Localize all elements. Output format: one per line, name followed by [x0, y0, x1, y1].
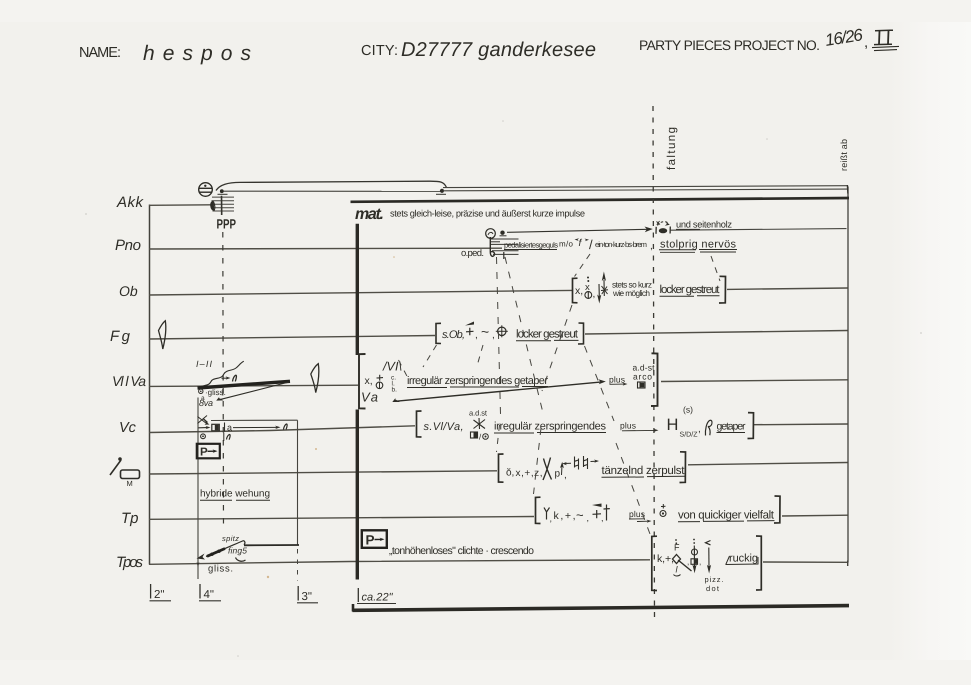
svg-text:M: M: [127, 479, 133, 488]
svg-text:a: a: [201, 395, 205, 402]
Vc bar-note marker: [223, 433, 225, 442]
perc right arrow: [591, 460, 597, 462]
svg-text:a: a: [227, 423, 232, 433]
svg-text:hybride wehung: hybride wehung: [200, 489, 270, 500]
Tp plus with wedge: [592, 504, 602, 508]
svg-text:,: ,: [475, 330, 478, 341]
staff line Vc (right): [754, 423, 848, 426]
central Vc box/circle below: [471, 432, 478, 438]
Fg wedge symbol near label: [159, 321, 166, 349]
Vc left arrow into box: [199, 427, 208, 429]
und seitenholz figure: x mark: [657, 221, 661, 225]
svg-text:ein·ton·kurz·bs·brem: ein·ton·kurz·bs·brem: [595, 240, 647, 249]
und seitenholz figure: left bar: [655, 227, 657, 234]
Vl/Va heavy diagonal stroke: [198, 381, 291, 388]
main thick barline: [356, 224, 359, 355]
Tpos gesture thick segment with dots: [207, 549, 225, 557]
Vl/Va dash after gliss: [222, 389, 224, 396]
Ob stacked circle-plus: [585, 292, 592, 299]
svg-text:x,: x,: [365, 375, 373, 387]
central Vl/Va plus over circle: [377, 375, 384, 381]
Vc note after arrow: [284, 424, 288, 430]
right system border: [847, 187, 849, 563]
svg-text:/: /: [589, 237, 593, 252]
svg-text:mat.: mat.: [355, 206, 384, 223]
Fg bracket ]: [578, 323, 584, 344]
Ob bracket [: [573, 278, 578, 303]
dashed vertical from Akk (x=223): [222, 232, 225, 531]
thin vertical at x=297.5 solid part: [297, 420, 299, 545]
dashed web: pedal text to Ob bracket: [575, 254, 591, 277]
svg-text:und seitenholz: und seitenholz: [676, 220, 732, 230]
staff line Vl/Va (right): [661, 380, 848, 382]
Fg crosshair circle: [498, 327, 506, 335]
ruckig diamond: [673, 555, 681, 564]
svg-text:,: ,: [587, 513, 590, 523]
dashed web: Vc plus down to ruckig bracket: [616, 443, 650, 534]
staff line Tp (left): [149, 517, 534, 520]
perc two natural-sign glyphs: [575, 456, 588, 470]
Vc small box symbol with bar: [212, 424, 220, 431]
dashed web: stolprig to Ob locker: [711, 256, 720, 281]
underlines irregular zerspringendes getaper: [407, 387, 447, 389]
Fg wedge over plus: [465, 322, 474, 326]
svg-text:F: F: [674, 543, 680, 553]
Vl/Va small arrow + note: [222, 377, 229, 379]
underlines hybride wehung: [200, 499, 232, 501]
Tpos gesture left arrowhead: [197, 554, 206, 560]
svg-text:irregulär zerspringendes getap: irregulär zerspringendes getaper: [407, 375, 548, 387]
Vc thin box top line: [211, 419, 298, 421]
dashed web: Vc text down to Tp bracket: [534, 428, 542, 494]
underline ruckig with lead hook: [726, 557, 759, 565]
timing underline 3s: [297, 602, 318, 604]
Vc P-> box: [197, 444, 220, 459]
svg-text:Tpos: Tpos: [116, 554, 144, 571]
svg-text:k,+,: k,+,: [554, 510, 576, 522]
svg-text:,: ,: [564, 470, 567, 481]
svg-text:,: ,: [492, 330, 495, 341]
svg-text:getaper: getaper: [717, 421, 747, 433]
Ob down arrow: [598, 284, 600, 297]
Vl/Va thin arrow to lower left: [219, 382, 289, 400]
svg-text:P: P: [200, 447, 208, 459]
Ob stacked colon dots: [587, 277, 589, 279]
small dash under left dot: [218, 193, 228, 195]
Pno extension line right: [671, 229, 847, 231]
svg-text:reißt ab: reißt ab: [839, 139, 849, 171]
top line with dots (left segment): [222, 190, 443, 192]
svg-text:~: ~: [576, 508, 584, 523]
timing tick 2s: [150, 584, 152, 599]
Tpos right end tick: [847, 561, 849, 567]
Pno dot at arrow start: [500, 231, 504, 235]
Pno figure squiggle inside circle: [488, 232, 493, 235]
underlines von quickiger vielfalt: [678, 521, 700, 523]
central Vc bracket ]: [748, 413, 754, 439]
Tp circle-dot with plus: [661, 504, 666, 509]
Pno dash under dot: [500, 235, 507, 237]
ruckig diagonal stroke: [678, 560, 692, 571]
thin vertical at x=198 (Vc to below Tpos): [197, 398, 199, 580]
svg-text:pizz.: pizz.: [705, 575, 724, 584]
Fg bracket [: [436, 323, 441, 343]
faltung dashed vertical: [653, 106, 655, 619]
svg-text:,: ,: [864, 34, 868, 51]
main thick barline lower part: [356, 410, 359, 580]
svg-text:faltung: faltung: [666, 126, 678, 170]
svg-text:,: ,: [699, 558, 701, 567]
ruckig colon dots: [693, 539, 695, 541]
svg-text:PPP: PPP: [217, 217, 236, 232]
Ob asterisk star: [601, 286, 608, 294]
top slur line with end hooks: [216, 181, 447, 190]
small up arrow on x=198 line at Tpos: [197, 562, 200, 567]
timing underline 2s: [150, 600, 172, 602]
Tpos gesture rising wavy line: [206, 541, 245, 557]
header: double underline under II: [872, 46, 899, 50]
central Vl/Va long double arrow: [395, 382, 603, 402]
svg-text:stolprig nervös: stolprig nervös: [660, 239, 737, 251]
dashed web: Ob bracket down to getaper: [542, 305, 572, 391]
perc bracket ]: [680, 452, 686, 483]
svg-text:plus: plus: [609, 375, 625, 385]
Ob bracket ]: [719, 276, 726, 303]
underline locker gestreut (Ob): [660, 295, 695, 297]
Akk dynamic PPP: [217, 217, 236, 232]
underline und seitenholz (partial): [676, 228, 700, 230]
double underline nervos: [699, 249, 737, 251]
timing underline ca.22s: [357, 603, 396, 605]
svg-text:,: ,: [593, 289, 596, 300]
svg-text:o.ped.: o.ped.: [461, 248, 484, 259]
Tp bracket [: [536, 497, 541, 523]
thin vertical at x=297.5 dashed part: [297, 549, 299, 581]
dashed web: VlVa area to perc bracket: [497, 425, 500, 452]
svg-text:4": 4": [204, 589, 214, 601]
top rail upper line: [443, 186, 847, 188]
staff line percussion (left): [149, 471, 497, 474]
Akk clef-like teardrop note: [211, 201, 215, 211]
perc left arrow: [565, 462, 572, 464]
Akk register circle symbol: [199, 183, 213, 197]
top rail lower line: [443, 189, 847, 191]
central Vl/Va bracket [: [359, 354, 366, 409]
ruckig less-than mark: [706, 541, 711, 545]
svg-text:irregulär zerspringendes: irregulär zerspringendes: [494, 421, 607, 433]
dashed web: Pno to Vc slanted line: [505, 257, 543, 413]
timing tick 3s: [297, 586, 299, 601]
thick emphasis line above mat.: [351, 198, 850, 202]
perc bracket [: [499, 454, 504, 482]
dashed web: Pno to Fg/VlVa steep line: [497, 257, 501, 414]
svg-text:b.: b.: [392, 387, 398, 394]
svg-text:,: ,: [687, 558, 689, 567]
underline getaper: [717, 432, 746, 434]
underlines: [494, 432, 534, 434]
svg-text:~: ~: [481, 324, 489, 340]
dot at left end of line: [220, 189, 224, 193]
bottom thick line: [353, 606, 850, 611]
svg-text:Fg: Fg: [110, 328, 133, 345]
central Vl/Va bracket ]: [651, 353, 658, 406]
perc big X: [543, 458, 552, 481]
ruckig bracket ]: [756, 536, 761, 590]
staff line Tpos (left): [149, 560, 650, 565]
svg-text:locker gestreut: locker gestreut: [660, 284, 721, 296]
und seitenholz figure: dashed arc with arrow: [658, 222, 669, 226]
Pno figure circle: [486, 229, 496, 239]
svg-text:Vl l Va: Vl l Va: [112, 373, 146, 389]
svg-text:x,+,z,: x,+,z,: [516, 468, 543, 479]
svg-text:gliss.: gliss.: [208, 564, 233, 575]
svg-text:wie möglich: wie möglich: [612, 288, 650, 298]
small dash under middle dot: [436, 193, 446, 195]
dot at middle junction: [440, 189, 444, 193]
svg-text:stets gleich-leise, präzise un: stets gleich-leise, präzise und äußerst …: [390, 209, 585, 219]
central Vc crossed note symbol: [474, 418, 486, 429]
svg-text:s.Vl/Va,: s.Vl/Va,: [424, 421, 464, 433]
svg-text:ca.22": ca.22": [362, 592, 394, 604]
und seitenholz figure: right bar: [669, 227, 671, 234]
svg-text:arco: arco: [633, 372, 652, 382]
Tpos gesture horizontal line: [244, 544, 299, 546]
staff line Ob (left of bracket): [149, 290, 572, 295]
svg-text:p: p: [555, 469, 561, 480]
Akk mini staff stem: [221, 196, 223, 215]
ruckig down arrow 1 with circle and box: [693, 546, 695, 568]
Vc bar-a marker: [224, 423, 226, 432]
svg-text:ruckig: ruckig: [729, 553, 758, 565]
svg-text:plus: plus: [620, 421, 636, 431]
svg-text:ŏ,: ŏ,: [506, 468, 514, 479]
svg-text:H: H: [667, 416, 679, 434]
Vl/Va wedge symbol: [311, 364, 319, 393]
ruckig down arrow 2: [708, 548, 710, 568]
Pno small right arrow after f: [585, 239, 590, 242]
staff line Pno: [149, 247, 502, 250]
svg-text:D27777 ganderkesee: D27777 ganderkesee: [401, 39, 596, 61]
top rail right end tick: [846, 185, 849, 194]
staff line Fg (right): [585, 331, 848, 335]
svg-text:Tp: Tp: [121, 510, 139, 527]
svg-text:P: P: [366, 533, 375, 548]
svg-text:S/D/Z: S/D/Z: [680, 431, 699, 439]
staff line Fg (left): [149, 336, 435, 340]
underlines tanzelnd zerpulst: [602, 476, 645, 478]
Tp dagger: [604, 505, 610, 521]
Vl/Va circle-dot gliss: [199, 389, 203, 393]
Vl/Va rising squiggle: [199, 361, 244, 387]
staff line Vc (left): [149, 426, 415, 433]
Vc circle-dot: [201, 434, 206, 439]
header: roman numeral II: [874, 30, 893, 44]
svg-text:pedalisiertesgequls: pedalisiertesgequls: [504, 241, 558, 250]
staff line percussion (right): [688, 463, 848, 465]
svg-text:Akk: Akk: [116, 194, 145, 211]
svg-text:dot: dot: [706, 584, 720, 593]
svg-text:k,+,: k,+,: [657, 553, 674, 565]
Tp bracket ]: [774, 496, 780, 523]
staff line Vl/Va (left): [149, 385, 358, 386]
svg-text:locker gestreut: locker gestreut: [516, 329, 579, 341]
svg-text:spitz: spitz: [222, 534, 239, 543]
svg-text:a.d.st: a.d.st: [469, 409, 488, 418]
Tp Y glyph: [544, 508, 550, 520]
svg-text:s.Ob,: s.Ob,: [442, 329, 465, 341]
timing underline 4s: [199, 600, 221, 602]
Tpos arc below: [236, 558, 246, 562]
Pno mini cluster staff lines: [491, 239, 519, 254]
central Vl/Va small box symbol: [638, 382, 646, 388]
dashed web: Fg bracket down to Vc plus: [585, 346, 615, 421]
staff line Tpos (right): [763, 561, 848, 563]
staff label percussion symbol: slash with dot: [110, 457, 140, 478]
staff line Ob (right of bracket): [727, 288, 848, 289]
svg-text:fing5: fing5: [228, 546, 247, 556]
double underline stolprig: [659, 249, 696, 251]
Fg plus: [466, 328, 474, 336]
left system border: [149, 205, 151, 565]
staff line Akk: [149, 204, 211, 207]
header: handwritten number 16/26: [824, 25, 865, 50]
svg-text:,: ,: [698, 424, 701, 435]
underline pedalisiertesgequls: [504, 249, 557, 251]
Akk mini staff (5 lines): [212, 197, 235, 211]
timing tick ca.22s: [357, 588, 359, 602]
Vc left crossed scribble: [198, 416, 208, 424]
svg-text:,: ,: [650, 241, 653, 252]
central Vc bracket [: [417, 411, 422, 437]
svg-text:,: ,: [601, 513, 604, 523]
svg-text:I–II: I–II: [196, 359, 212, 369]
svg-text:Ob: Ob: [119, 283, 138, 299]
svg-text:tänzelnd zerpulst: tänzelnd zerpulst: [602, 465, 686, 477]
underline locker gestreut (Fg): [516, 340, 551, 342]
svg-text:NAME:: NAME:: [79, 45, 121, 61]
svg-text:Pno: Pno: [115, 237, 141, 254]
Ob up arrow: [603, 280, 605, 296]
svg-text:PARTY PIECES PROJECT NO.: PARTY PIECES PROJECT NO.: [639, 38, 820, 53]
svg-text:,: ,: [550, 514, 553, 524]
svg-text:x,: x,: [575, 285, 583, 297]
Pno mini staff small stem: [503, 252, 505, 259]
Pno long arrow line to faltung: [507, 229, 649, 232]
timing tick 4s: [199, 584, 201, 599]
Pno small left arrow before f: [575, 238, 580, 241]
svg-text:Vc: Vc: [119, 420, 137, 436]
Vc long arrow: [233, 426, 277, 428]
svg-text:„tonhöhenloses" clichte · cres: „tonhöhenloses" clichte · crescendo: [389, 545, 534, 557]
dashed web: VI down to irregular: [399, 360, 410, 380]
svg-text:3": 3": [302, 591, 312, 603]
Vl/Va small note glyph: [233, 375, 237, 381]
svg-text:(s): (s): [683, 405, 693, 415]
dashed web: Fg [ down left: [423, 345, 437, 367]
dashed web: Fg plus down: [477, 345, 483, 366]
ruckig bracket [: [652, 536, 657, 590]
staff line Tp (right): [782, 514, 848, 517]
paper speckles: [267, 256, 395, 578]
Pno mini cluster staff stem with loop: [490, 237, 494, 256]
svg-text:von quickiger vielfalt: von quickiger vielfalt: [678, 510, 775, 522]
svg-text:m/o: m/o: [559, 240, 574, 249]
bottom thick line left hook: [352, 604, 355, 612]
svg-text:2": 2": [154, 589, 164, 601]
Pno arrowhead right: [645, 227, 653, 233]
Tpos P-> box: [362, 530, 387, 548]
svg-text:CITY:: CITY:: [361, 43, 398, 59]
und seitenholz figure: filled oval: [659, 228, 667, 233]
